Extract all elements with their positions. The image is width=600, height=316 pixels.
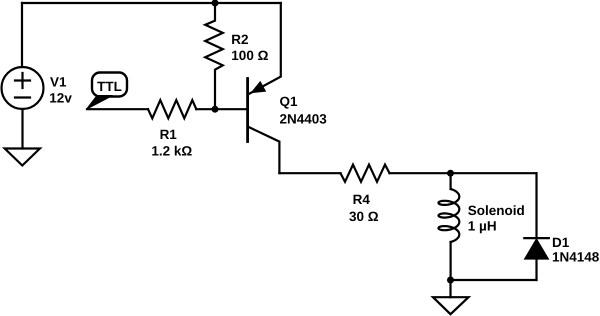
svg-text:R2: R2 (231, 32, 248, 47)
svg-text:V1: V1 (50, 75, 67, 90)
wire emitter drop from top rail (249, 3, 281, 94)
svg-text:30 Ω: 30 Ω (349, 209, 379, 224)
ground (left) (5, 149, 40, 166)
wire V1 bottom lead (21, 109, 23, 149)
svg-text:1 µH: 1 µH (468, 219, 497, 234)
svg-text:R4: R4 (353, 192, 371, 207)
diode D1 cathode bar (524, 237, 549, 239)
svg-text:1.2 kΩ: 1.2 kΩ (151, 144, 192, 159)
svg-text:1N4148: 1N4148 (552, 250, 600, 265)
wire ground drop (449, 280, 451, 297)
inductor Solenoid top lead (450, 173, 452, 189)
node junction solenoid / diode / ground (447, 277, 454, 284)
svg-text:2N4403: 2N4403 (280, 112, 328, 127)
resistor R4 (341, 165, 390, 182)
svg-text:TTL: TTL (97, 79, 122, 94)
transistor Q1 emitter arrow (252, 82, 265, 92)
inductor Solenoid bottom lead (450, 242, 452, 280)
wire top rail (22, 2, 281, 4)
svg-text:12v: 12v (49, 91, 72, 106)
TTL bubble (92, 73, 127, 97)
wire R4 to diode corner (390, 172, 537, 174)
wire R1 to base (196, 108, 247, 110)
wire diode bottom lead (535, 259, 537, 280)
wire diode top lead (535, 173, 537, 238)
diode D1 triangle (525, 239, 548, 259)
voltage source V1 (2, 67, 44, 109)
wire bottom rail (451, 279, 537, 281)
node junction R1 / R2 / base (212, 106, 219, 113)
wire TTL to R1 (87, 108, 148, 110)
svg-text:R1: R1 (160, 127, 178, 142)
inductor Solenoid coil (439, 189, 460, 242)
resistor R2 (205, 3, 223, 109)
transistor Q1 base bar (246, 79, 249, 142)
svg-text:D1: D1 (552, 235, 570, 250)
ground (right) (433, 297, 469, 314)
svg-text:Solenoid: Solenoid (468, 203, 525, 218)
node junction top rail / R2 (212, 0, 219, 7)
wire V1 top lead (21, 3, 23, 67)
transistor Q1 collector (248, 127, 280, 174)
svg-text:100 Ω: 100 Ω (231, 48, 268, 63)
wire collector to R4 (279, 172, 340, 174)
TTL bubble tail (87, 96, 113, 110)
resistor R1 (148, 100, 196, 118)
svg-text:Q1: Q1 (280, 94, 299, 109)
node junction R4 / solenoid (447, 170, 454, 177)
